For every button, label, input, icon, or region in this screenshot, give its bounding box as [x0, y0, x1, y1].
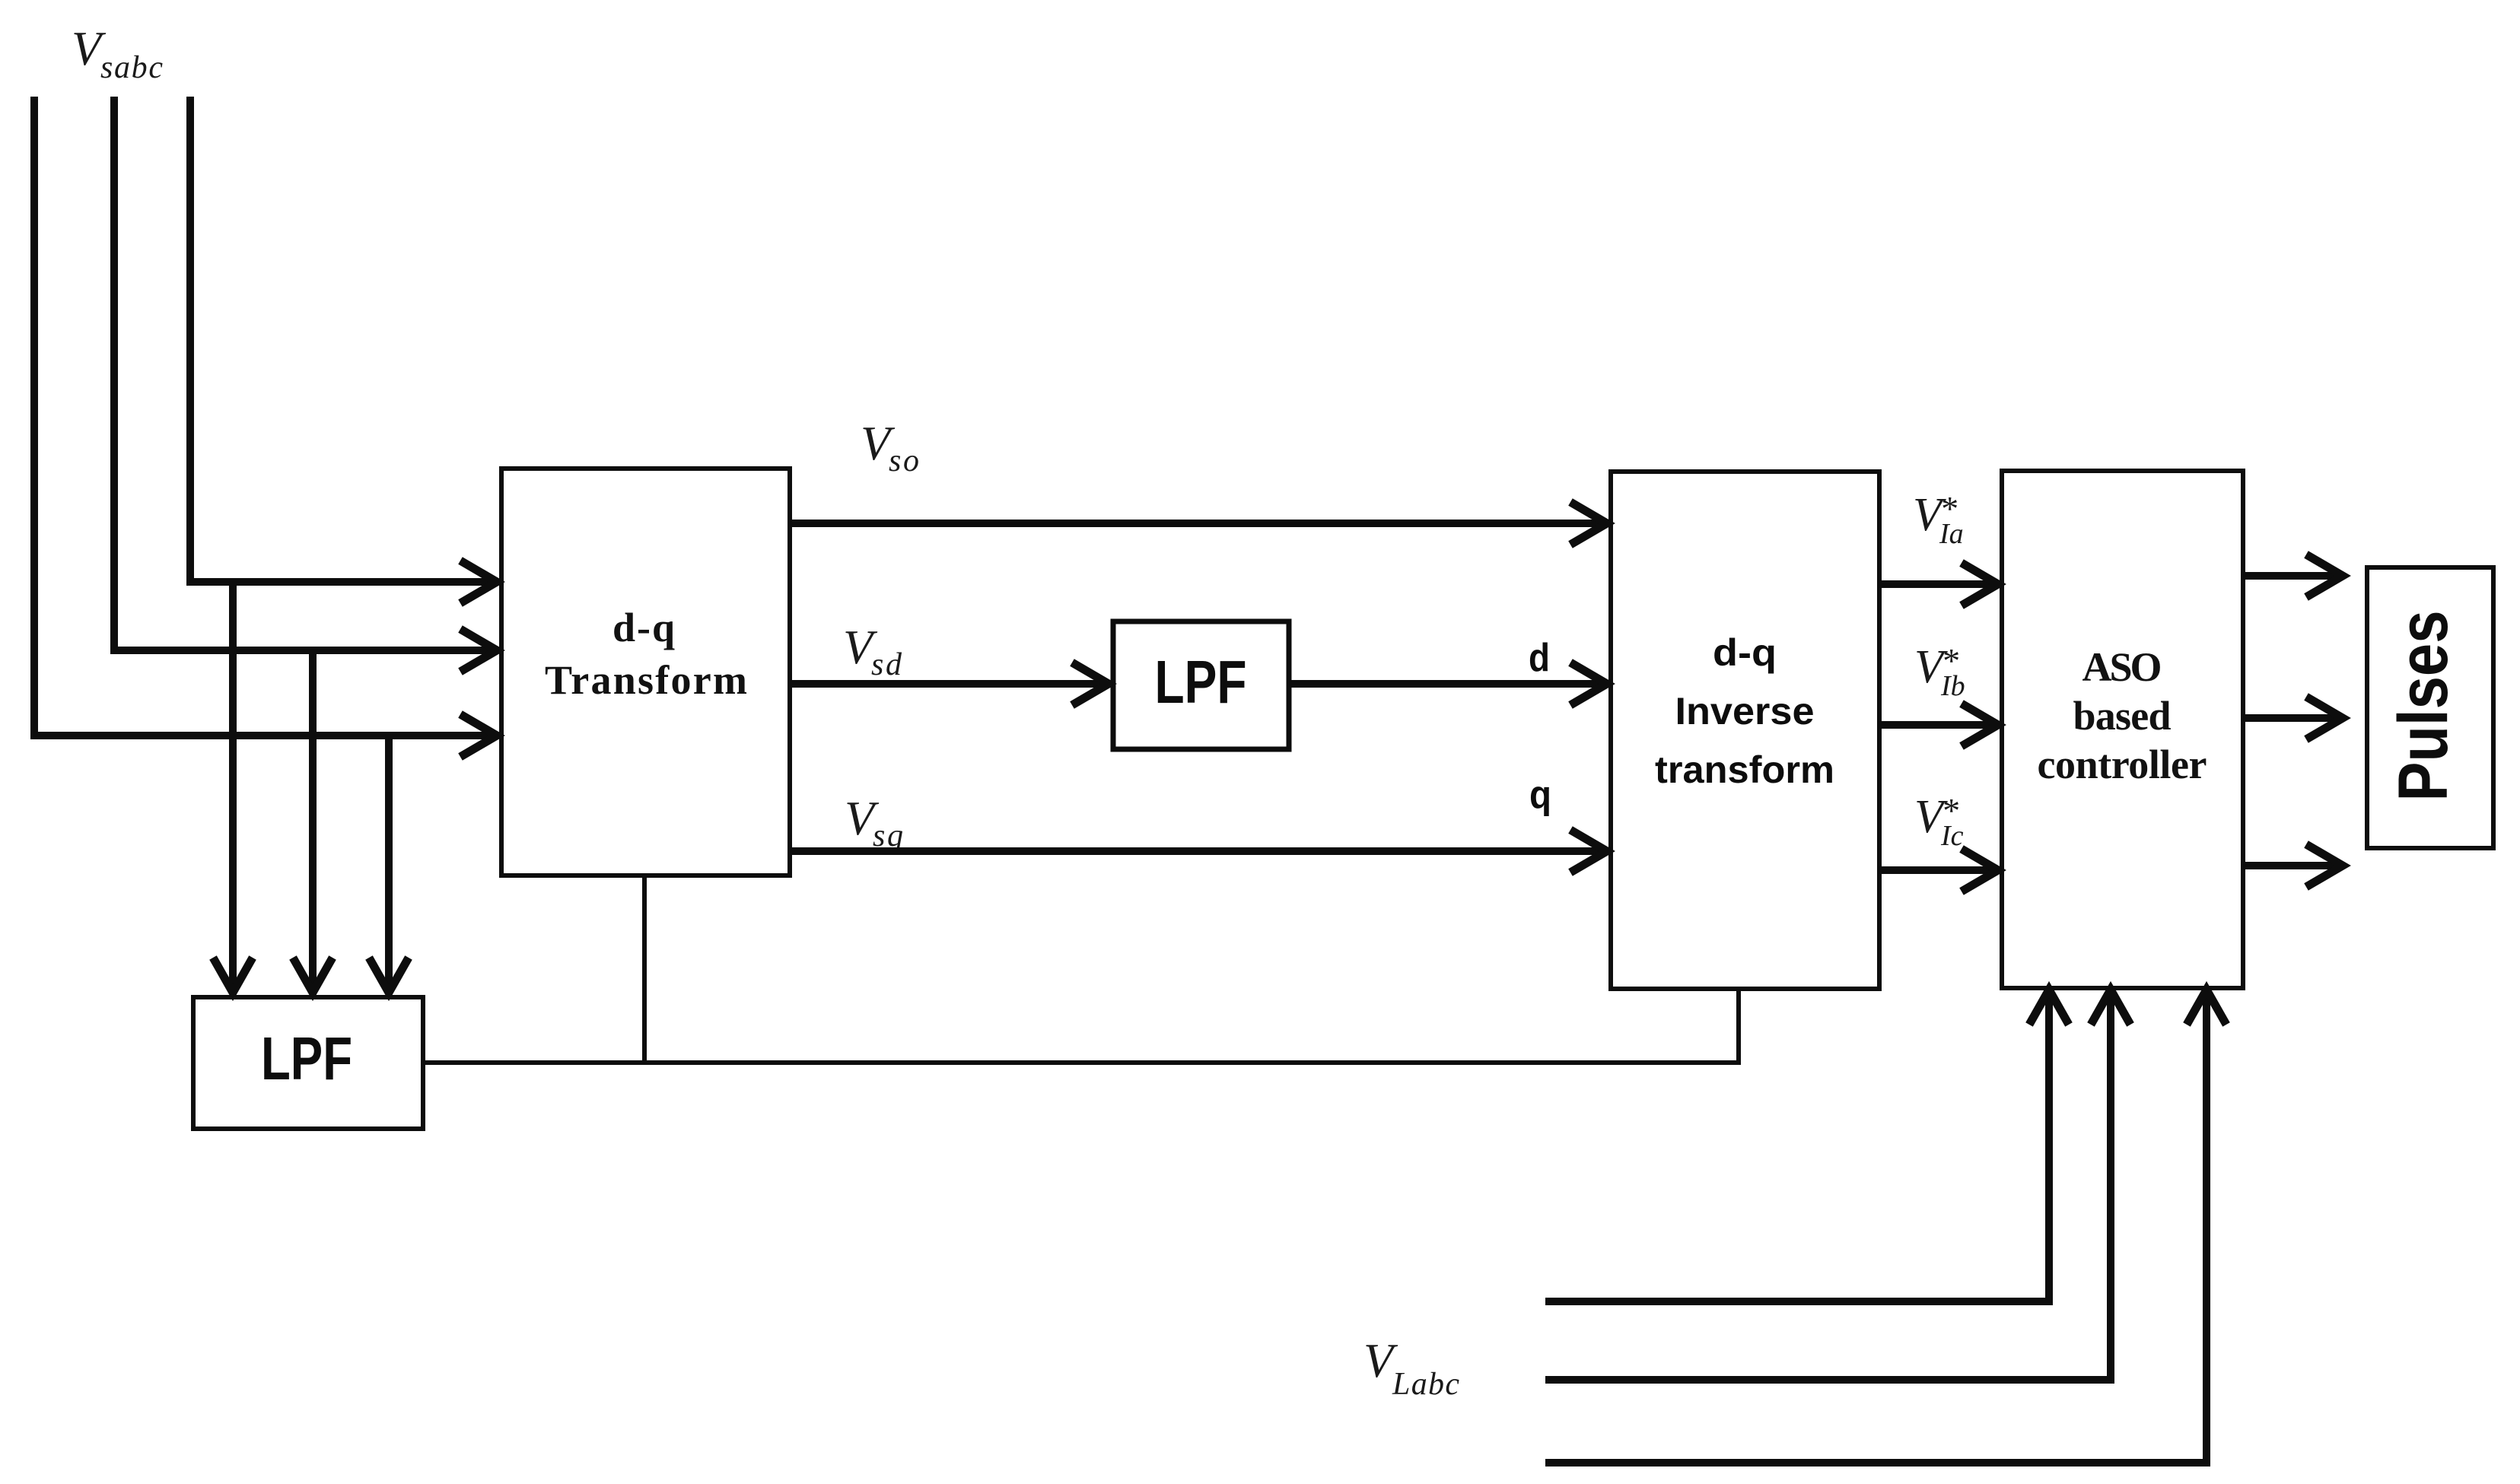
- wire drop c to LPF2: [385, 736, 393, 989]
- svg-text:based: based: [2073, 693, 2172, 739]
- svg-text:Transform: Transform: [545, 657, 747, 703]
- svg-text:d-q: d-q: [612, 605, 675, 650]
- block Pulses: [2367, 567, 2493, 848]
- svg-text:transform: transform: [1655, 748, 1834, 791]
- label VIa*: [1913, 489, 1964, 550]
- wire LPF2 output feedback to inverse block: [423, 989, 1739, 1063]
- wire VLc to ASO bottom: [1545, 993, 2207, 1463]
- label VIb*: [1914, 641, 1965, 702]
- svg-text:LPF: LPF: [1155, 648, 1247, 716]
- svg-text:sd: sd: [871, 647, 902, 682]
- wire VIb to ASO: [1879, 721, 1997, 729]
- svg-text:Ic: Ic: [1940, 820, 1964, 852]
- wire Vsq to inverse block: [790, 847, 1605, 855]
- block LPF mid: [1113, 621, 1289, 749]
- wire drop b to LPF2: [309, 650, 317, 989]
- label Vsd: [843, 620, 902, 682]
- wire ASO output 2: [2243, 714, 2341, 722]
- wire arrow into d-q Transform input 1: [190, 578, 495, 582]
- wire VIa to ASO: [1879, 580, 1997, 588]
- block d-q Transform: [501, 469, 790, 875]
- svg-text:d: d: [1529, 636, 1550, 680]
- wire Vsd into LPF: [790, 680, 1107, 688]
- label q: [1529, 773, 1551, 817]
- svg-text:controller: controller: [2038, 742, 2207, 787]
- label Vso: [861, 416, 919, 478]
- svg-text:Labc: Labc: [1392, 1367, 1459, 1402]
- wire ASO output 3: [2243, 862, 2341, 869]
- svg-text:Pulses: Pulses: [2385, 611, 2462, 802]
- block ASO based controller: [2002, 471, 2243, 988]
- label d: [1529, 636, 1550, 680]
- wire input phase a vertical: [30, 97, 38, 736]
- block LPF 2: [193, 997, 423, 1129]
- wire input phase c vertical: [186, 97, 194, 582]
- wire theta from transform bottom: [642, 875, 647, 1063]
- svg-text:Ib: Ib: [1940, 670, 1965, 702]
- svg-text:sabc: sabc: [100, 50, 163, 85]
- svg-text:q: q: [1529, 773, 1551, 817]
- svg-text:Inverse: Inverse: [1675, 690, 1815, 732]
- wire VLb to ASO bottom: [1545, 993, 2111, 1380]
- wire input phase b vertical: [110, 97, 118, 650]
- wire Vso to inverse block: [790, 520, 1605, 527]
- wire ASO output 1: [2243, 572, 2341, 580]
- svg-text:d-q: d-q: [1713, 631, 1777, 674]
- label Vsabc: [72, 21, 163, 85]
- block d-q Inverse transform: [1611, 472, 1879, 989]
- label Vsq: [845, 791, 903, 853]
- wire arrow into d-q Transform input 2: [114, 647, 495, 650]
- svg-text:Ia: Ia: [1939, 518, 1964, 550]
- wire arrow into d-q Transform input 3: [34, 732, 495, 736]
- label VLabc: [1363, 1333, 1459, 1402]
- wire LPF output d to inverse block: [1289, 680, 1605, 688]
- wire drop a to LPF2: [229, 582, 237, 989]
- svg-text:LPF: LPF: [261, 1025, 352, 1092]
- wire VIc to ASO: [1879, 866, 1997, 874]
- svg-text:ASO: ASO: [2082, 644, 2162, 690]
- label VIc*: [1914, 791, 1964, 852]
- wire VLa to ASO bottom: [1545, 993, 2049, 1301]
- svg-text:so: so: [889, 443, 919, 478]
